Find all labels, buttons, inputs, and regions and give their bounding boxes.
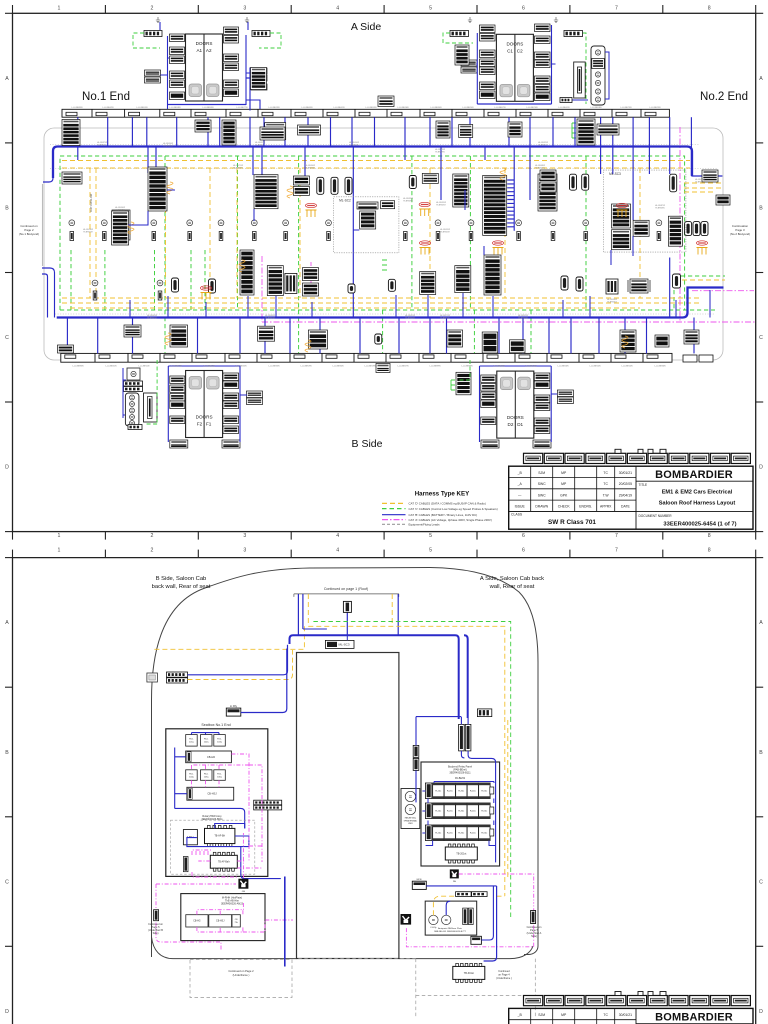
- connector: [252, 31, 270, 37]
- svg-text:L-LL/BE45N: L-LL/BE45N: [236, 366, 247, 368]
- connector stack: [381, 201, 395, 209]
- M-RHH hotplate box: [181, 894, 265, 941]
- wall connector left: [147, 673, 158, 682]
- car body outline (gray): [44, 128, 723, 360]
- svg-text:DOORS: DOORS: [196, 41, 213, 46]
- svg-text:R-50x: R-50x: [481, 833, 488, 835]
- label oval: [305, 203, 316, 207]
- connector stack: [702, 170, 718, 182]
- lamp symbol: [69, 220, 75, 226]
- connector stack: [684, 330, 699, 344]
- connector stack: [303, 268, 319, 281]
- svg-text:ML-SC2: ML-SC2: [339, 199, 351, 203]
- relay row: [425, 803, 493, 819]
- svg-text:104a: 104a: [189, 776, 195, 778]
- speaker connector: [327, 232, 331, 241]
- connector stack: [535, 76, 551, 84]
- connector stack: [534, 426, 550, 434]
- connector stack: [481, 384, 496, 392]
- svg-text:D: D: [5, 1009, 9, 1015]
- svg-text:SWC: SWC: [538, 493, 546, 497]
- connector stack: [62, 120, 80, 146]
- lamp symbol: [595, 97, 600, 102]
- connector stack: [633, 220, 649, 236]
- relay row: [425, 825, 493, 841]
- svg-text:L-LL/BE19N: L-LL/BE19N: [365, 366, 376, 368]
- RCL box: [201, 770, 213, 781]
- flying-lead comb: [420, 248, 431, 255]
- continued note right: [730, 224, 750, 236]
- ground: [156, 17, 160, 23]
- svg-text:3: 3: [243, 6, 246, 12]
- connector stack: [455, 45, 469, 65]
- svg-text:BOMBARDIER: BOMBARDIER: [655, 469, 733, 481]
- connector stack: [224, 36, 239, 44]
- svg-text:8: 8: [708, 533, 711, 539]
- connector stack: [223, 426, 239, 434]
- svg-text:A: A: [5, 620, 9, 626]
- connector stack: [535, 36, 551, 44]
- connector pill: [582, 174, 589, 190]
- wire net labels: [83, 142, 706, 320]
- svg-text:3: 3: [243, 548, 246, 554]
- connector stack: [145, 77, 161, 83]
- connector stack: [170, 401, 185, 409]
- connector stack: [170, 47, 185, 55]
- title block table: [509, 466, 753, 529]
- extra right connectors bottom row: [683, 355, 697, 362]
- connector pill: [317, 177, 324, 194]
- lamp symbol: [130, 421, 135, 426]
- seatbox magenta wiring: [192, 754, 263, 802]
- connector stack: [251, 68, 267, 74]
- speaker connector: [158, 291, 162, 300]
- svg-text:L-LL/BE24N: L-LL/BE24N: [463, 107, 474, 109]
- connector: [167, 672, 188, 677]
- svg-text:L-LL/BE30N: L-LL/BE30N: [431, 107, 442, 109]
- svg-text:HLBNW35: HLBNW35: [349, 145, 359, 147]
- RCL box: [214, 735, 226, 747]
- lamp symbol: [595, 50, 600, 55]
- svg-text:HLBNW47: HLBNW47: [255, 145, 265, 147]
- svg-text:back wall, Rear of seat: back wall, Rear of seat: [152, 584, 211, 590]
- svg-text:A Side: A Side: [351, 21, 382, 33]
- svg-text:L-LL/BE41N: L-LL/BE41N: [106, 366, 117, 368]
- svg-text:ML-SC3: ML-SC3: [609, 172, 621, 176]
- svg-text:20/02/05: 20/02/05: [619, 482, 632, 486]
- RCL box: [201, 735, 213, 747]
- continued page5 right: [531, 911, 536, 924]
- row segment labels: [72, 107, 666, 368]
- label oval: [696, 241, 707, 245]
- lamp symbol: [151, 220, 157, 226]
- speaker connector: [584, 232, 588, 241]
- svg-text:C: C: [759, 879, 763, 885]
- connector pill: [345, 177, 352, 194]
- label oval: [419, 241, 430, 245]
- svg-text:GPK: GPK: [560, 493, 568, 497]
- blue drop to underframe: [284, 877, 286, 967]
- svg-text:HLBNW98: HLBNW98: [403, 201, 413, 203]
- connector stack: [480, 67, 496, 75]
- svg-text:CB-HSJ: CB-HSJ: [216, 921, 224, 923]
- green dashed door A: [133, 33, 281, 48]
- connector stack: [223, 373, 239, 381]
- svg-text:Saloon Roof Harness Layout: Saloon Roof Harness Layout: [659, 501, 736, 507]
- lamp symbol: [595, 80, 600, 85]
- svg-text:F2 F1: F2 F1: [197, 422, 212, 427]
- connector stack: [170, 325, 188, 347]
- svg-text:DOORS: DOORS: [507, 415, 524, 420]
- yellow coil leads: [128, 168, 628, 352]
- 3-col connector: [285, 273, 297, 293]
- CB-HSJ box: [187, 787, 234, 800]
- door block A1A2: [186, 34, 223, 101]
- connector pill: [172, 278, 179, 292]
- svg-text:DOORS: DOORS: [196, 415, 213, 420]
- svg-text:SJM: SJM: [538, 1013, 545, 1017]
- svg-text:Continued on page 1 (Roof): Continued on page 1 (Roof): [324, 587, 368, 591]
- svg-text:3EER400026-B111: 3EER400026-B111: [449, 772, 471, 775]
- connector pill: [701, 222, 708, 236]
- connector stack: [535, 60, 551, 68]
- connector: [128, 425, 142, 430]
- svg-text:HLBNW28: HLBNW28: [405, 318, 415, 320]
- connector stack: [62, 172, 82, 184]
- svg-text:TC: TC: [603, 471, 608, 475]
- connector stack: [195, 120, 211, 132]
- connector: [456, 892, 472, 897]
- svg-text:ENDRS.: ENDRS.: [579, 505, 592, 509]
- svg-text:7: 7: [615, 533, 618, 539]
- connector stack: [303, 283, 319, 296]
- door block F2F1: [186, 371, 223, 438]
- speaker connector: [70, 232, 74, 241]
- svg-text:R-10x: R-10x: [435, 791, 442, 793]
- connector stack: [224, 27, 239, 35]
- connector stack: [481, 400, 496, 408]
- connector stack: [630, 279, 648, 293]
- connector pill: [348, 284, 355, 293]
- connector stack: [557, 390, 573, 397]
- speaker connector: [152, 232, 156, 241]
- svg-text:T.W: T.W: [603, 493, 610, 497]
- Lt Rly box: [226, 708, 241, 716]
- connector stack: [481, 375, 496, 383]
- svg-text:Seatbox No.1 End: Seatbox No.1 End: [201, 723, 230, 727]
- page 2 border frame: [13, 558, 756, 1024]
- svg-text:6: 6: [522, 548, 525, 554]
- svg-text:HLBNW49: HLBNW49: [440, 232, 450, 234]
- main blue bus top: [53, 147, 724, 318]
- svg-text:L-LL/BE77N: L-LL/BE77N: [237, 107, 248, 109]
- magenta to page5 right: [406, 874, 533, 947]
- svg-text:CB-HSJ: CB-HSJ: [207, 792, 217, 796]
- connector stack: [170, 56, 185, 64]
- svg-text:A Side, Saloon Cab back: A Side, Saloon Cab back: [480, 576, 544, 582]
- connector stack: [240, 250, 254, 295]
- svg-text:TB-AF-Bafr: TB-AF-Bafr: [218, 861, 230, 864]
- svg-text:4: 4: [336, 548, 339, 554]
- connector stack: [112, 210, 130, 240]
- svg-text:L-LL/BE37N: L-LL/BE37N: [171, 366, 182, 368]
- lamp symbol: [130, 415, 135, 420]
- continued note left: [19, 224, 39, 236]
- connector stack: [508, 122, 522, 137]
- connector stack: [357, 202, 378, 209]
- connector stack: [260, 127, 285, 140]
- connector stack: [223, 416, 239, 424]
- connector stack: [540, 182, 556, 192]
- svg-text:L-LL/BE58N: L-LL/BE58N: [591, 107, 602, 109]
- svg-text:CAT 'C' CABLES (Control Low Vo: CAT 'C' CABLES (Control Low Voltage eg S…: [409, 507, 498, 511]
- connector stack: [222, 120, 236, 145]
- connector stack: [534, 418, 550, 426]
- svg-text:RCL: RCL: [217, 773, 222, 775]
- connector stack: [592, 59, 605, 69]
- svg-text:R-40x: R-40x: [470, 833, 477, 835]
- seatbox outline: [166, 729, 268, 877]
- svg-text:MP: MP: [561, 1013, 567, 1017]
- svg-text:R-20x: R-20x: [447, 811, 454, 813]
- connector stack: [251, 68, 267, 90]
- connector stack: [222, 440, 240, 448]
- svg-text:3EER400026-B011: 3EER400026-B011: [201, 818, 223, 821]
- connector stack: [170, 440, 188, 448]
- svg-text:L-LL/BE70N: L-LL/BE70N: [527, 107, 538, 109]
- lamp symbol: [595, 89, 600, 94]
- connector at top: [343, 601, 351, 612]
- connector stack: [668, 216, 682, 246]
- svg-text:R-50x: R-50x: [481, 791, 488, 793]
- connector stack: [58, 345, 74, 353]
- svg-text:L-LL/BE59N: L-LL/BE59N: [301, 366, 312, 368]
- speaker connector: [404, 232, 408, 241]
- svg-text:HLBNW49: HLBNW49: [83, 232, 93, 234]
- connector stack: [510, 340, 526, 353]
- svg-text:RCL: RCL: [204, 739, 209, 741]
- connector stack: [577, 119, 595, 145]
- label A side cab: [480, 576, 544, 590]
- svg-text:B: B: [5, 206, 9, 212]
- connector: [144, 31, 162, 37]
- svg-text:29/04/19: 29/04/19: [619, 493, 632, 497]
- lamp symbol: [130, 395, 135, 400]
- speaker connector: [219, 232, 223, 241]
- svg-text:L-LL/BE26N: L-LL/BE26N: [558, 366, 569, 368]
- label oval: [492, 241, 503, 245]
- connector stack: [535, 93, 551, 101]
- connector stack: [481, 392, 496, 400]
- svg-text:Side): Side): [153, 932, 159, 935]
- connector stack: [480, 91, 496, 99]
- lamp symbol: [92, 280, 98, 286]
- connector stack: [224, 80, 239, 88]
- svg-text:D: D: [759, 1009, 763, 1015]
- svg-text:HLBNW99: HLBNW99: [233, 168, 243, 170]
- lamp symbol: [326, 220, 332, 226]
- hotplate magenta wiring: [156, 833, 293, 950]
- junction box: [401, 914, 412, 925]
- CB boxes in hotplate: [186, 915, 208, 927]
- svg-text:TC: TC: [603, 1013, 608, 1017]
- svg-text:L-LL/BE55N: L-LL/BE55N: [137, 107, 148, 109]
- lamp symbol: [187, 220, 193, 226]
- junction box: [450, 869, 459, 878]
- svg-text:CAT 'D' CABLES (DATA / COMMS e: CAT 'D' CABLES (DATA / COMMS eg BUS/IP C…: [409, 502, 486, 506]
- svg-text:HLBNW12: HLBNW12: [535, 168, 545, 170]
- connector stack: [148, 167, 167, 211]
- connector: [254, 800, 282, 805]
- connector stack: [540, 170, 556, 180]
- connector stack: [223, 381, 239, 389]
- connector stack: [170, 376, 185, 384]
- svg-text:D: D: [759, 465, 763, 471]
- svg-text:CB-HG: CB-HG: [193, 921, 201, 923]
- speaker connector: [469, 232, 473, 241]
- flying-lead comb: [201, 293, 212, 300]
- svg-text:wall, Rear of seat: wall, Rear of seat: [489, 584, 535, 590]
- svg-text:HLBNW70: HLBNW70: [440, 318, 450, 320]
- svg-text:MP: MP: [561, 482, 567, 486]
- connector stack: [170, 385, 185, 393]
- svg-text:B Side: B Side: [352, 438, 383, 450]
- connector stack: [170, 416, 185, 424]
- connector stack: [170, 80, 185, 88]
- lamp symbol: [550, 220, 556, 226]
- connector stack: [360, 211, 376, 229]
- svg-text:L-LL/BE66N: L-LL/BE66N: [494, 366, 505, 368]
- connector: [477, 709, 491, 717]
- yellow dashed harness runs: [62, 161, 722, 309]
- svg-text:LS-Rly: LS-Rly: [430, 927, 436, 929]
- relay panel box: [421, 762, 500, 866]
- lamp symbol: [595, 72, 600, 77]
- autopoint box: [425, 901, 477, 935]
- lamp symbol: [405, 804, 415, 814]
- connector stack: [538, 174, 557, 211]
- svg-text:PAB-BE-001 3EER400026-B777: PAB-BE-001 3EER400026-B777: [434, 930, 466, 933]
- lamp symbol: [251, 220, 257, 226]
- svg-text:5: 5: [429, 6, 432, 12]
- connector stack: [223, 401, 239, 409]
- connector stack: [436, 121, 450, 138]
- svg-text:4: 4: [336, 533, 339, 539]
- svg-text:Lt Rly: Lt Rly: [230, 704, 238, 708]
- connector stack: [534, 381, 550, 389]
- svg-text:L-LL/BE93N: L-LL/BE93N: [203, 107, 214, 109]
- connector stack: [535, 52, 551, 60]
- connector: [564, 31, 583, 37]
- connector stack: [247, 398, 263, 405]
- aux assembly left of door F: [127, 368, 140, 380]
- lamp symbol: [101, 220, 107, 226]
- svg-text:RCL: RCL: [217, 739, 222, 741]
- svg-text:MCB: MCB: [417, 879, 422, 881]
- svg-text:DRAWN: DRAWN: [535, 505, 548, 509]
- connector stack: [170, 71, 185, 79]
- connector pill: [673, 274, 681, 288]
- svg-text:2: 2: [150, 533, 153, 539]
- svg-text:L-LL/BE16N: L-LL/BE16N: [398, 107, 409, 109]
- lamp symbol: [468, 220, 474, 226]
- svg-text:L-LL/BE89N: L-LL/BE89N: [462, 366, 473, 368]
- connector: [167, 678, 188, 683]
- svg-text:CB-HD: CB-HD: [207, 755, 215, 759]
- svg-text:L-LL/BE10N: L-LL/BE10N: [590, 366, 601, 368]
- datum dotted lines: [50, 145, 723, 315]
- svg-text:HLBNW12: HLBNW12: [147, 318, 157, 320]
- svg-text:L-LL/BE69N: L-LL/BE69N: [302, 107, 313, 109]
- svg-text:SPEAKER/BAIL: SPEAKER/BAIL: [404, 819, 418, 822]
- lamp symbol: [130, 408, 135, 413]
- lamp symbol: [656, 220, 662, 226]
- svg-text:105a: 105a: [204, 776, 210, 778]
- speaker connector: [657, 232, 661, 241]
- connector stack: [420, 272, 436, 295]
- connector stack: [251, 84, 267, 90]
- svg-text:HLBNW48: HLBNW48: [518, 318, 528, 320]
- connector stack: [170, 92, 185, 100]
- svg-text:HLBNW96: HLBNW96: [435, 152, 445, 154]
- 3-col connector lower right: [606, 279, 618, 294]
- svg-text:SW R Class 701: SW R Class 701: [548, 519, 596, 526]
- connector stack: [447, 330, 463, 347]
- svg-text:No.2 End: No.2 End: [700, 91, 748, 103]
- connector stack: [534, 373, 550, 381]
- dashed underframe box right: [296, 959, 536, 1018]
- connector stack: [612, 230, 631, 250]
- connector stack: [480, 25, 496, 33]
- magenta dash-dot run: [262, 127, 755, 322]
- svg-text:R-50x: R-50x: [481, 811, 488, 813]
- RCL box: [186, 735, 198, 747]
- svg-text:GN: GN: [242, 891, 246, 893]
- speaker connector: [93, 291, 97, 300]
- connector stack: [480, 59, 496, 67]
- green dashed harness run: [60, 156, 715, 353]
- svg-text:HLBNW31: HLBNW31: [97, 145, 107, 147]
- magenta stub: [310, 262, 312, 290]
- svg-text:L-LL/BE30N: L-LL/BE30N: [333, 366, 344, 368]
- connector: [124, 381, 143, 386]
- svg-text:2: 2: [150, 548, 153, 554]
- svg-text:R-10x: R-10x: [435, 811, 442, 813]
- svg-text:L-LL/BE89N: L-LL/BE89N: [72, 107, 83, 109]
- flying-lead comb: [419, 209, 430, 216]
- svg-text:L-LL/BE26N: L-LL/BE26N: [526, 366, 537, 368]
- connector stack: [480, 50, 496, 58]
- wire left to bus: [188, 645, 288, 675]
- connector stack: [267, 266, 283, 296]
- seatbox blue wiring: [175, 733, 245, 829]
- speaker connector: [253, 232, 257, 241]
- svg-text:(No.2 Bodyend): (No.2 Bodyend): [730, 232, 750, 236]
- svg-text:L-LL/BE33N: L-LL/BE33N: [269, 366, 280, 368]
- connector stack: [224, 89, 239, 97]
- svg-text:BOMBARDIER: BOMBARDIER: [655, 1011, 733, 1023]
- connector stack: [298, 125, 321, 135]
- ruler labels page 1: [5, 6, 763, 540]
- svg-text:Side): Side): [531, 935, 537, 938]
- connector stack: [251, 75, 267, 81]
- yellow dashed top: [151, 594, 504, 717]
- ruler labels page 2: [5, 548, 763, 1015]
- svg-text:CLASS: CLASS: [511, 513, 523, 517]
- connector stack: [254, 175, 278, 209]
- svg-text:B Side, Saloon Cab: B Side, Saloon Cab: [156, 576, 207, 582]
- svg-text:TB-AF-Bfr: TB-AF-Bfr: [214, 835, 225, 838]
